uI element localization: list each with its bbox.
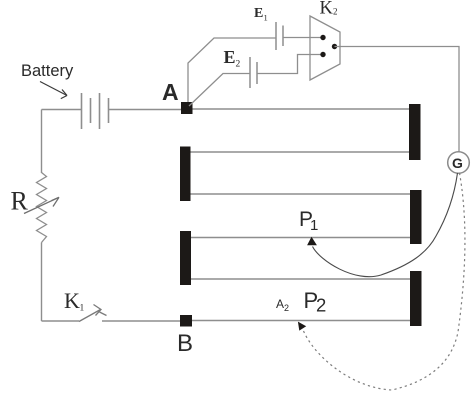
R arrow [24,197,59,213]
svg-text:B: B [177,330,193,357]
svg-text:2: 2 [316,295,326,316]
wire 2 [191,151,410,153]
wire 1 (A to right bar 1) [193,108,410,110]
battery [82,93,109,129]
wire E2 left (node A diagonal) [189,74,250,107]
wire E1 left (node A up) [188,38,276,102]
dashed arc G to P2 [303,173,465,390]
svg-text:1: 1 [80,304,85,314]
K2 label [320,0,338,19]
svg-text:E: E [224,47,236,67]
K2 contact dot bottom [320,52,325,57]
svg-text:2: 2 [236,60,241,70]
wire 5 [191,278,411,280]
cell E2 [250,57,257,88]
jockey arc G to P1 [313,173,458,277]
two-way key K2 outline [310,16,340,80]
wire E1 right to K2 [283,37,322,39]
battery pointer arrow [40,82,67,99]
svg-text:K: K [64,288,80,313]
wire K1 left stub [42,320,80,322]
svg-text:2: 2 [333,7,338,17]
wire E2 right to K2 [257,55,323,74]
wire K2 output to G [335,47,460,153]
galvanometer G circle [448,152,470,174]
E1 label [254,6,268,23]
K2 contact dot middle [332,44,337,49]
wire battery right to node A [109,109,183,111]
node A [181,102,193,114]
wire 4 [191,237,410,239]
K1 label [64,288,85,314]
A2 small label [276,297,289,313]
svg-text:R: R [11,187,29,216]
wire battery left [42,109,82,111]
svg-text:Battery: Battery [21,62,74,80]
rheostat R zigzag [37,173,47,243]
svg-text:E: E [254,6,263,21]
svg-text:A: A [162,79,179,105]
svg-text:1: 1 [264,13,268,23]
svg-text:G: G [452,155,463,171]
svg-text:K: K [320,0,334,19]
wire 6 (B to right bar 3) [192,320,410,322]
svg-text:2: 2 [284,303,289,313]
E2 label [224,47,241,70]
wire left vertical upper [41,110,43,174]
potentiometer right bar 2 [410,190,422,244]
potentiometer right bar 3 [410,271,422,326]
svg-text:1: 1 [310,217,318,234]
P1 arrowhead [307,237,317,246]
P2 arrowhead [298,322,306,331]
potentiometer left bar 2 [180,231,191,285]
wire K1 right to node B [102,320,181,322]
K2 contact dot top [320,35,325,40]
wire left vertical lower [41,243,43,322]
node B [180,315,192,327]
wire 3 [191,193,411,195]
cell E1 [276,22,283,50]
P2 label [304,288,327,316]
P1 label [299,208,318,234]
potentiometer right bar 1 [409,104,421,160]
potentiometer left bar 1 [180,147,191,202]
svg-text:A: A [276,297,284,311]
switch K1 blade [79,305,107,322]
